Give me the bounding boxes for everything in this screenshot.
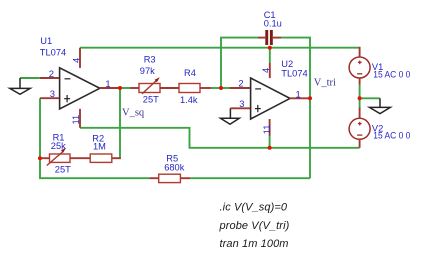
svg-text:3: 3 [50,88,55,99]
ground GND2 (U2 pin3) [221,108,240,124]
resistor R3 leads [130,87,179,89]
svg-text:probe V(V_tri): probe V(V_tri) [219,220,290,232]
resistor R5 leads [149,177,190,179]
svg-text:1M: 1M [93,142,106,152]
svg-text:680k: 680k [164,163,185,173]
node V_tri junction [308,96,312,100]
svg-text:TL074: TL074 [281,69,307,79]
op-amp U1 pin 11 lead [79,109,81,128]
wire V_tri vertical (C1 right to R5) [309,38,311,179]
svg-text:.ic V(V_sq)=0: .ic V(V_sq)=0 [220,202,288,214]
svg-text:V_tri: V_tri [314,78,336,89]
svg-text:0.1u: 0.1u [264,19,282,29]
op-amp U2 pin 3 lead [230,107,250,109]
op-amp U2 pin 4 lead [269,63,271,78]
svg-text:3: 3 [239,98,244,109]
svg-text:TL074: TL074 [40,48,66,58]
op-amp U1 pin 3 lead [40,97,59,99]
wire V+ rail (U1 pin4 to V1) [80,47,360,49]
resistor R4 [179,84,200,93]
wire R5 bottom feedback left segment [39,177,149,179]
ground GND1 [10,78,30,94]
wire R5 bottom feedback right segment [190,177,310,179]
op-amp U2 [251,78,290,119]
wire U2 pin11 drop [269,136,271,148]
voltage source V1 leads [359,47,361,85]
svg-text:15 AC 0 0: 15 AC 0 0 [373,131,410,141]
wire U1 out to R3 [120,87,130,89]
wire node to ground GND3 [360,97,380,99]
svg-text:25T: 25T [55,165,71,175]
op-amp U2 pin 2 lead [230,87,250,89]
node V1/V2 junction [358,96,362,100]
resistor R2 right lead [112,157,121,159]
wire V- rail (U1 pin11 to V2) [80,128,360,148]
svg-text:15 AC 0 0: 15 AC 0 0 [373,70,410,80]
wire node to U2 pin2 [221,87,230,89]
svg-text:tran 1m 100m: tran 1m 100m [220,238,289,250]
op-amp U2 pin 1 lead [290,97,309,99]
resistor R5 [159,174,181,182]
svg-text:1: 1 [105,78,110,89]
resistor R2 [90,154,112,162]
wire V1 bottom to node [359,85,361,99]
svg-text:25T: 25T [143,95,159,105]
op-amp U1 [60,68,100,109]
node V_sq junction [118,86,122,90]
wire U1 pin3 / R1 / R5 left vertical [39,98,41,178]
wire U2 pin4 riser [269,48,271,63]
wire V_sq vertical to R2 [119,88,121,158]
svg-text:R4: R4 [184,68,196,78]
ground GND3 [370,98,391,113]
svg-text:V_sq: V_sq [122,108,145,119]
svg-text:25k: 25k [51,141,66,151]
voltage source V2 [349,118,370,139]
voltage source V1 [349,57,370,78]
node C1/U2 pin4 junction [268,46,272,50]
voltage source V2 leads [359,108,361,148]
svg-text:11: 11 [70,115,81,125]
node R4/U2 junction [219,86,223,90]
op-amp U1 pin 1 lead [100,87,119,89]
svg-text:U1: U1 [40,36,52,46]
resistor R4 right lead [200,87,211,89]
wire C1 right lead to vertical [281,37,311,39]
wire node to V2 top [359,98,361,107]
op-amp U1 pin 4 lead [79,48,81,68]
svg-text:2: 2 [49,68,54,79]
node U2 pin11 junction [268,146,272,150]
resistor R1 (variable) [47,148,70,166]
svg-text:97k: 97k [140,66,155,76]
resistor R3 (variable) [139,77,160,94]
wire U1 pin2 to ground [20,77,40,79]
op-amp U2 pin 11 lead [269,119,271,136]
svg-text:1: 1 [296,88,301,99]
wire C1 left lead to V_sq column [221,38,258,88]
svg-text:11: 11 [261,125,272,135]
svg-text:R3: R3 [144,55,156,65]
op-amp U1 pin 2 lead [40,77,59,79]
svg-text:1.4k: 1.4k [180,95,198,105]
capacitor C1 [258,30,281,45]
svg-text:4: 4 [260,68,271,73]
wire R4 to node [211,87,221,89]
node R1/pin3 junction [38,156,42,160]
resistor R1 leads [42,157,90,159]
svg-text:4: 4 [70,58,81,63]
svg-text:2: 2 [238,78,243,89]
svg-text:U2: U2 [281,59,293,69]
